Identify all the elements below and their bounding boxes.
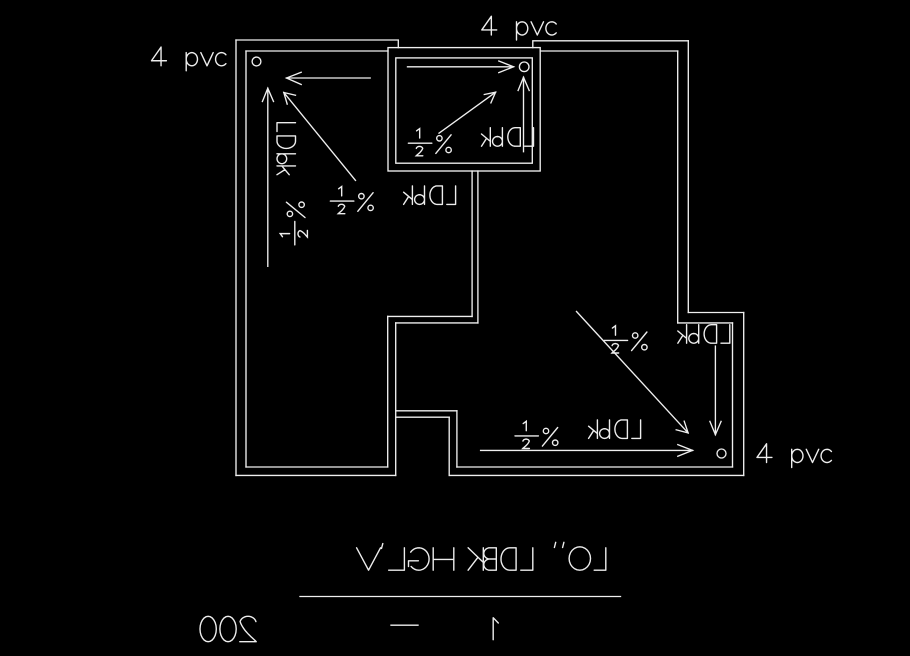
arrow A2 left room vertical up	[267, 88, 269, 266]
label 4 pvc top-center	[482, 16, 556, 40]
arrow A3 left room diagonal	[284, 93, 356, 181]
interior wall lower vertical b	[395, 323, 397, 476]
arrow A8 right room vertical down	[714, 346, 716, 435]
label 4 pvc top-left	[152, 47, 226, 71]
arrow A6 shaft box diagonal	[439, 92, 496, 133]
label LDbk right room lower (mirrored)	[589, 420, 641, 439]
interior wall upper vertical b	[477, 171, 479, 323]
scale dash	[391, 624, 418, 626]
wall bottom inner right segment	[457, 466, 733, 468]
arrow A1 left room horizontal	[287, 77, 371, 79]
wall right lower outer	[743, 313, 745, 476]
label 4 pvc bottom-right	[757, 444, 831, 468]
notch right vertical outer	[456, 411, 458, 467]
wall bottom outer left segment	[236, 474, 396, 476]
notch top inner	[396, 416, 450, 418]
arrow A4 shaft box horizontal	[408, 66, 514, 68]
wall bottom outer right segment	[449, 474, 744, 476]
notch top outer	[396, 410, 457, 412]
label LDbk vertical left room (rotated)	[277, 123, 296, 175]
slope label right room lower	[515, 421, 558, 448]
wall left inner	[245, 51, 247, 467]
arrow A5 shaft box vertical up	[523, 77, 525, 151]
scale numeral 200 (mirrored)	[200, 616, 256, 641]
arrow A7 right room diagonal	[577, 312, 689, 433]
interior wall step upper	[388, 315, 472, 317]
wall top outer right segment	[533, 41, 689, 48]
arrow A9 bottom horizontal right	[481, 449, 693, 451]
interior wall step lower	[396, 322, 478, 324]
scale numeral 1 (mirrored)	[493, 618, 498, 640]
shaft box inner rect	[396, 58, 533, 163]
notch right vertical inner	[448, 417, 450, 475]
wall top outer left segment	[236, 40, 398, 48]
title rule	[300, 596, 621, 598]
interior wall lower vertical a	[387, 316, 389, 467]
wall right step outer	[688, 312, 743, 314]
riser circle C3 bottom-right	[717, 449, 726, 458]
wall top inner right segment	[540, 50, 678, 52]
riser circle C1 top-left	[252, 57, 261, 66]
wall right upper outer	[687, 41, 689, 313]
wall right lower inner	[732, 323, 734, 467]
wall left outer	[235, 40, 237, 475]
shaft box outer rect	[388, 48, 540, 171]
interior wall upper vertical a	[471, 171, 473, 316]
wall right step inner	[678, 322, 733, 324]
riser circle C2 shaft box	[519, 62, 529, 72]
label LDbk corridor (mirrored)	[404, 186, 456, 205]
wall top inner left segment	[246, 50, 388, 52]
slope label right room upper	[604, 326, 647, 353]
label LDbk right room upper (mirrored)	[678, 325, 730, 344]
label LDbk shaft box (mirrored)	[482, 128, 534, 147]
slope label left room	[330, 187, 373, 214]
title text LO'' LDBK HGL'V (mirrored)	[357, 542, 606, 570]
wall right upper inner	[677, 51, 679, 323]
slope label left room rotated	[280, 202, 307, 245]
wall bottom inner left segment	[246, 466, 388, 468]
slope label shaft box	[408, 129, 451, 156]
